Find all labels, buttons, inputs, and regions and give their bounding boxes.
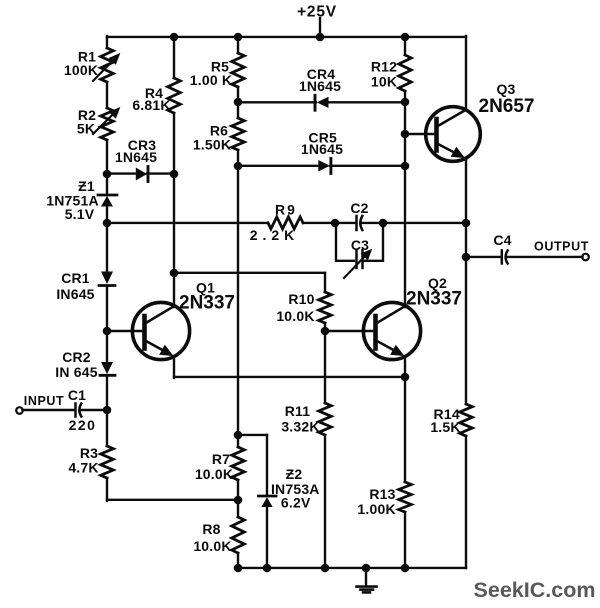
transistor Q2 — [363, 302, 420, 359]
svg-text:R8: R8 — [202, 521, 220, 537]
node C2 right — [379, 219, 388, 228]
node R7 R8 R3 — [234, 496, 243, 505]
wire C3 box — [336, 223, 383, 261]
wire rail to R12 — [404, 36, 406, 55]
wire Z2 to bottom rail — [266, 507, 268, 568]
svg-text:2N337: 2N337 — [406, 289, 462, 310]
wire R14 to bottom rail — [465, 436, 467, 568]
zener Z2 — [259, 496, 277, 507]
zener Z1 — [98, 195, 117, 207]
label CR1 part — [56, 286, 94, 302]
wire rail to R5 — [237, 36, 239, 53]
label CR2 part — [55, 364, 97, 380]
wire C1 to node — [81, 409, 107, 411]
svg-text:R11: R11 — [285, 403, 311, 419]
wire R5 to CR4 node — [237, 87, 239, 102]
node C4 — [462, 253, 471, 262]
svg-text:1.00K: 1.00K — [357, 501, 395, 517]
svg-text:3.32K: 3.32K — [281, 419, 319, 435]
svg-text:1N645: 1N645 — [301, 141, 343, 157]
label R11 value — [281, 419, 319, 435]
wire CR3 to R4 column — [147, 172, 174, 174]
wire CR4 node to R6 — [237, 102, 239, 118]
svg-text:INPUT: INPUT — [24, 394, 65, 408]
diode CR4 — [315, 95, 329, 110]
label CR3 part — [115, 149, 157, 165]
wire CR2 to input node — [106, 376, 108, 410]
label R6 — [210, 123, 228, 139]
label Z2 — [286, 466, 303, 482]
label R3 — [80, 445, 98, 461]
label Z1 voltage — [65, 206, 95, 222]
svg-text:5K: 5K — [77, 121, 95, 137]
label R3 value — [68, 460, 98, 476]
svg-text:10K: 10K — [371, 74, 397, 90]
label R6 value — [193, 137, 231, 153]
node input junction — [103, 406, 112, 415]
wire C4 node to R14 — [465, 257, 467, 404]
label R1 — [78, 49, 96, 65]
svg-text:1.50K: 1.50K — [193, 137, 231, 153]
wire R4 to CR3 node — [173, 113, 175, 174]
node top-rail +25V — [316, 33, 325, 42]
label C2 — [350, 200, 368, 216]
node bottom Z2 — [263, 564, 272, 573]
wire collector line to R10 — [174, 273, 325, 292]
label CR5 — [308, 130, 337, 146]
resistor R14 — [460, 404, 473, 436]
node rail2 Q3 emitter — [462, 219, 471, 228]
label C3 — [351, 237, 369, 253]
wire Q1 base node to CR2 — [106, 331, 108, 362]
node Q2 emitter — [401, 373, 410, 382]
node Q3 base — [401, 130, 410, 139]
label Q3 part — [479, 96, 535, 117]
svg-text:1N645: 1N645 — [115, 149, 157, 165]
watermark SeekIC.com — [474, 578, 596, 602]
wire CR1 to Q1 base node — [106, 286, 108, 331]
wire R8 to bottom rail — [237, 553, 239, 568]
wire Q3 base — [405, 133, 437, 135]
diode CR5 — [318, 158, 331, 173]
label R9 value — [250, 227, 300, 243]
node CR5 right — [401, 162, 410, 171]
label C4 — [493, 232, 511, 248]
svg-text:C4: C4 — [493, 232, 511, 248]
wire Q3 base node to CR5 node — [404, 134, 406, 166]
wire Q1 base — [107, 330, 144, 332]
power +25V label — [297, 4, 337, 21]
diode CR2 — [100, 362, 115, 375]
svg-text:2N337: 2N337 — [179, 293, 235, 314]
wire R6 to CR5 node — [237, 150, 239, 166]
wire Q2 collector — [404, 166, 406, 307]
svg-text:C2: C2 — [350, 200, 368, 216]
node Q1 base — [103, 327, 112, 336]
node bottom R13 — [401, 564, 410, 573]
label R13 — [369, 486, 395, 502]
label C1 — [68, 387, 86, 403]
svg-text:R13: R13 — [369, 486, 395, 502]
wire rail to R1 — [106, 36, 108, 48]
capacitor C4 — [502, 251, 508, 264]
wire CR3 node to Z1 — [106, 174, 108, 195]
label R13 value — [357, 501, 395, 517]
svg-text:220: 220 — [69, 417, 97, 433]
wire emitter rail — [174, 376, 405, 378]
wire top rail — [107, 36, 466, 38]
label R7 — [212, 451, 230, 467]
wire C4 right — [507, 256, 582, 258]
svg-text:100K: 100K — [64, 62, 98, 78]
wire R7 to R8 — [237, 480, 239, 517]
svg-text:1N645: 1N645 — [299, 78, 341, 94]
svg-text:4.7K: 4.7K — [68, 460, 98, 476]
label R4 — [145, 85, 163, 101]
label R5 value — [190, 72, 232, 88]
label INPUT — [24, 394, 65, 408]
label CR4 — [307, 66, 336, 82]
label R14 — [434, 406, 460, 422]
wire CR4 right — [328, 101, 405, 103]
node CR4 left — [234, 98, 243, 107]
resistor R12 — [399, 55, 412, 91]
resistor R1 — [93, 48, 120, 82]
svg-text:CR2: CR2 — [62, 349, 91, 365]
label Z2 part — [271, 481, 320, 497]
diode CR1 — [99, 272, 115, 286]
wire Z2 branch — [238, 435, 267, 495]
svg-text:C3: C3 — [351, 237, 369, 253]
terminal OUTPUT — [582, 254, 589, 261]
wire R3 to R7R8 node — [107, 478, 239, 501]
label OUTPUT — [534, 240, 589, 254]
wire Q1 emitter — [173, 356, 175, 378]
label Z2 voltage — [281, 495, 311, 511]
resistor R8 — [232, 517, 245, 553]
svg-text:IN645: IN645 — [56, 286, 94, 302]
svg-text:C1: C1 — [68, 387, 86, 403]
wire Q2 emitter to R13 — [404, 377, 406, 482]
ground — [357, 568, 377, 592]
svg-text:10.0K: 10.0K — [276, 308, 314, 324]
node C2 left — [331, 219, 340, 228]
wire R2 to CR3 node — [106, 140, 108, 174]
wire rail to R4 — [173, 36, 175, 78]
wire CR5 left — [238, 165, 319, 167]
label Q1 part — [179, 293, 235, 314]
wire +25V stem — [319, 18, 321, 38]
resistor R11 — [319, 403, 332, 435]
wire C4 left — [466, 256, 501, 258]
svg-text:CR1: CR1 — [61, 270, 90, 286]
wire Z1 to rail2 — [106, 206, 108, 223]
label R11 — [285, 403, 311, 419]
transistor Q1 — [132, 302, 189, 359]
label CR2 — [62, 349, 91, 365]
wire CR3 left stub — [107, 172, 138, 174]
node Q2 base — [321, 327, 330, 336]
wire input node to R3 — [106, 410, 108, 446]
svg-text:R12: R12 — [371, 59, 397, 75]
node bottom R11 — [321, 564, 330, 573]
node top-rail R5 — [234, 33, 243, 42]
wire rail2 to CR1 — [106, 223, 108, 272]
label Z1 part — [46, 193, 99, 209]
wire rail to Q3 collector — [465, 36, 467, 110]
terminal INPUT — [16, 407, 23, 414]
resistor R4 — [168, 78, 181, 113]
wire CR4 left — [238, 101, 316, 103]
svg-text:6.81K: 6.81K — [132, 97, 170, 113]
svg-text:1.00 K: 1.00 K — [190, 72, 232, 88]
resistor R2 — [93, 108, 120, 140]
svg-text:IN 645: IN 645 — [55, 364, 97, 380]
svg-text:R10: R10 — [288, 291, 314, 307]
label CR3 — [128, 137, 157, 153]
wire R5R6 column down — [237, 166, 239, 377]
node Z2 branch — [234, 431, 243, 440]
capacitor C3 — [357, 250, 363, 268]
diode CR3 — [136, 167, 148, 182]
wire R1 to R2 — [106, 82, 108, 108]
node rail2 left — [103, 219, 112, 228]
label R12 value — [371, 74, 397, 90]
node CR3 right — [170, 170, 179, 179]
resistor R13 — [399, 482, 412, 512]
resistor R6 — [232, 118, 245, 150]
label C1 value — [69, 417, 97, 433]
label R5 — [211, 59, 229, 75]
resistor R7 — [232, 447, 245, 480]
capacitor C2 — [357, 216, 363, 230]
svg-text:Q3: Q3 — [496, 81, 515, 97]
label R10 value — [276, 308, 314, 324]
label R9 — [275, 202, 297, 218]
wire R13 to ground rail — [404, 512, 406, 568]
svg-text:R7: R7 — [212, 451, 230, 467]
label CR4 part — [299, 78, 341, 94]
node top-rail R4 — [170, 33, 179, 42]
wire R9 to C2 — [303, 222, 335, 224]
wire Q3 emitter node to C4 node — [465, 223, 467, 257]
label R1 value — [64, 62, 98, 78]
label R4 value — [132, 97, 170, 113]
wire R10 to R11 — [324, 323, 326, 403]
wire rail2 right — [383, 222, 466, 224]
wire emitters to R7 — [237, 377, 239, 447]
svg-text:Ƶ2: Ƶ2 — [286, 466, 303, 482]
label Q1 — [196, 280, 215, 296]
label R2 value — [77, 121, 95, 137]
wire Q2 base — [325, 330, 375, 332]
wire CR4 node to Q3 base node — [404, 102, 406, 134]
node CR5 left — [234, 162, 243, 171]
svg-text:6.2V: 6.2V — [281, 495, 311, 511]
svg-text:2.2K: 2.2K — [250, 227, 300, 243]
resistor R5 — [232, 53, 245, 87]
svg-text:5.1V: 5.1V — [65, 206, 95, 222]
label Q2 — [428, 275, 447, 291]
svg-text:+25V: +25V — [297, 4, 337, 21]
label R7 value — [195, 466, 233, 482]
label Z1 — [78, 178, 95, 194]
node bottom R8 — [234, 564, 243, 573]
wire C2 right stub — [362, 222, 383, 224]
wire R12 to CR4 node — [404, 91, 406, 102]
label R2 — [78, 107, 96, 123]
svg-text:R9: R9 — [275, 202, 297, 218]
arrow C3 trimmer — [344, 250, 372, 279]
wire R4 column down — [173, 174, 175, 273]
label CR5 part — [301, 141, 343, 157]
label R14 value — [430, 419, 460, 435]
wire rail2 left — [107, 222, 268, 224]
node bottom ground — [362, 564, 371, 573]
label Q3 — [496, 81, 515, 97]
label CR1 — [61, 270, 90, 286]
node top-rail R12 — [401, 33, 410, 42]
wire Q2 emitter — [404, 356, 406, 377]
node CR4 right — [401, 98, 410, 107]
resistor R10 — [319, 292, 332, 323]
svg-text:OUTPUT: OUTPUT — [534, 240, 589, 254]
node CR3 left — [103, 170, 112, 179]
label R8 — [202, 521, 220, 537]
capacitor C1 — [76, 404, 82, 417]
resistor R9 — [268, 217, 303, 229]
label R12 — [371, 59, 397, 75]
label R10 — [288, 291, 314, 307]
wire bottom rail — [238, 567, 466, 569]
transistor Q3 — [426, 107, 481, 162]
resistor R3 — [101, 446, 114, 478]
svg-text:10.0K: 10.0K — [193, 538, 231, 554]
svg-text:10.0K: 10.0K — [195, 466, 233, 482]
wire R11 to ground rail — [324, 435, 326, 568]
svg-text:2N657: 2N657 — [479, 96, 535, 117]
wire Q3 emitter — [465, 158, 467, 223]
wire CR5 right — [330, 165, 405, 167]
node Q1 collector — [170, 269, 179, 278]
svg-text:1.5K: 1.5K — [430, 419, 460, 435]
wire input to C1 — [23, 409, 75, 411]
svg-text:SeekIC.com: SeekIC.com — [474, 578, 596, 602]
label R8 value — [193, 538, 231, 554]
wire C2 left stub — [335, 222, 356, 224]
wire Q1 collector — [173, 273, 175, 307]
label Q2 part — [406, 289, 462, 310]
